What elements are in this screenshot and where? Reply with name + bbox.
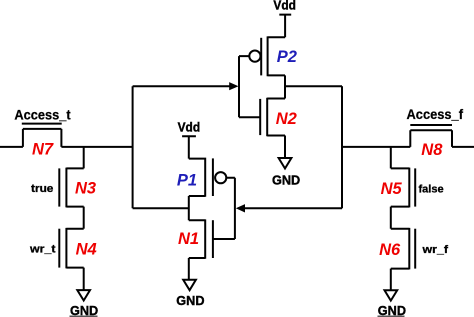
svg-text:Vdd: Vdd	[273, 0, 296, 12]
svg-text:false: false	[419, 184, 444, 196]
svg-text:N4: N4	[76, 240, 97, 258]
svg-text:true: true	[31, 183, 53, 195]
svg-text:P1: P1	[177, 172, 197, 190]
svg-text:Access_t: Access_t	[14, 107, 70, 123]
svg-text:wr_t: wr_t	[29, 244, 56, 256]
svg-text:P2: P2	[277, 48, 297, 66]
svg-text:GND: GND	[70, 304, 98, 317]
svg-text:N1: N1	[178, 230, 199, 248]
svg-text:wr_f: wr_f	[421, 244, 448, 256]
svg-text:N6: N6	[379, 241, 401, 259]
svg-text:N3: N3	[75, 180, 96, 198]
svg-text:GND: GND	[176, 294, 204, 308]
svg-text:Vdd: Vdd	[178, 121, 201, 135]
svg-text:N7: N7	[32, 141, 54, 159]
svg-text:Access_f: Access_f	[407, 106, 464, 122]
svg-text:N8: N8	[421, 141, 443, 159]
svg-text:N5: N5	[381, 180, 403, 198]
svg-text:N2: N2	[276, 110, 297, 128]
svg-text:GND: GND	[272, 173, 300, 187]
svg-text:GND: GND	[378, 304, 406, 317]
